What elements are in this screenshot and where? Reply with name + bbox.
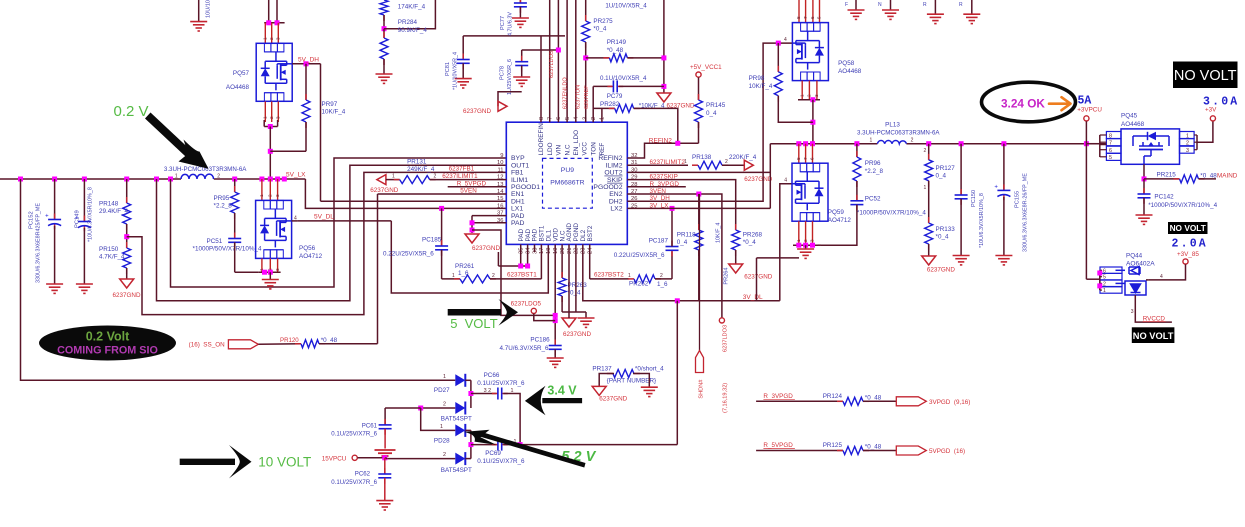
junction (810, 141, 815, 146)
ground (376, 501, 393, 510)
junction (959, 141, 964, 146)
wire PU9 top pin (557, 0, 559, 122)
svg-text:N: N (878, 2, 882, 8)
svg-text:6237GND: 6237GND (370, 187, 398, 194)
wire (442, 278, 460, 280)
svg-text:PC61: PC61 (362, 423, 378, 430)
svg-text:+3V_85: +3V_85 (1177, 251, 1199, 258)
wire R_3VPGD (756, 400, 843, 402)
svg-text:4.7K/F_4: 4.7K/F_4 (99, 254, 125, 261)
svg-text:PL13: PL13 (885, 122, 900, 129)
wire (1100, 276, 1102, 278)
ground (953, 256, 970, 265)
wire (1100, 282, 1102, 284)
svg-text:6237REF: 6237REF (584, 85, 590, 109)
pin stubs PQ57 bottom (264, 101, 266, 122)
capacitor PC149 plates (83, 216, 85, 222)
svg-text:+3VPCU: +3VPCU (1077, 107, 1102, 114)
annotation arrow to 15VPCU (180, 459, 235, 465)
junction MAIND (1142, 176, 1147, 181)
svg-text:34: 34 (525, 247, 531, 254)
wire (470, 430, 472, 458)
wire (465, 429, 471, 431)
junction (675, 141, 680, 146)
svg-text:F: F (845, 2, 848, 8)
wire (698, 194, 700, 230)
wire (1085, 121, 1087, 144)
capacitor PC79 plates (607, 85, 613, 87)
junction PQ58 gate (776, 41, 781, 46)
svg-text:6: 6 (556, 117, 562, 120)
terminal 6237LDO5 (531, 308, 536, 313)
wire (522, 49, 559, 51)
junction (18, 177, 23, 182)
svg-text:0.1U/25V/X7R_6: 0.1U/25V/X7R_6 (477, 380, 525, 387)
svg-text:+: + (45, 214, 49, 220)
capacitor PC69 plates (492, 444, 498, 446)
terminal +5V_VCC1 (696, 72, 701, 77)
wire (462, 63, 464, 78)
svg-text:1: 1 (440, 424, 443, 430)
svg-text:5A: 5A (1078, 95, 1092, 108)
wire (798, 99, 820, 101)
svg-text:0_4: 0_4 (936, 173, 947, 180)
junction (525, 264, 530, 269)
annotation arrow to PD28 (478, 431, 586, 467)
svg-text:6237LDO5: 6237LDO5 (549, 51, 555, 78)
svg-text:EN1: EN1 (511, 191, 524, 198)
transistor PQ45 pin boxes left (1106, 132, 1121, 161)
wire (441, 250, 443, 279)
svg-text:PR95: PR95 (214, 195, 230, 202)
connector 5VPGD (896, 446, 926, 455)
wire (83, 179, 85, 222)
svg-text:R_5VPGD: R_5VPGD (763, 442, 793, 449)
svg-text:2: 2 (269, 37, 274, 40)
wire PQ59 gate (780, 184, 792, 301)
svg-text:0.2 V: 0.2 V (114, 103, 149, 120)
junction (470, 220, 475, 225)
wire (465, 458, 471, 460)
svg-text:2: 2 (725, 159, 728, 165)
wire (676, 301, 678, 445)
svg-text:2: 2 (443, 402, 446, 408)
annotation arrow to PC66 output (542, 398, 582, 403)
capacitor PC66 plates (492, 393, 498, 395)
wire (358, 457, 386, 459)
junction (268, 149, 273, 154)
wire (663, 0, 665, 93)
junction feedback divider (124, 234, 129, 239)
wire (585, 0, 587, 21)
svg-text:1: 1 (628, 273, 631, 279)
svg-text:PC149: PC149 (75, 210, 81, 228)
wire (126, 179, 128, 203)
svg-text:PGOOD1: PGOOD1 (511, 184, 540, 191)
ground (376, 74, 393, 83)
capacitor PC155 plates (1003, 184, 1005, 190)
wire (769, 144, 771, 209)
transistor PQ58 AO4468 (792, 23, 828, 81)
pin stubs PQ58 top (798, 0, 800, 23)
resistor PR95 zigzag (234, 186, 236, 192)
svg-text:0.22U/25V/X5R_6: 0.22U/25V/X5R_6 (614, 252, 665, 259)
svg-text:6237GND: 6237GND (563, 331, 591, 338)
resistor PR282 zigzag (609, 107, 615, 109)
wire 5V_DH (292, 63, 320, 65)
junction (262, 270, 267, 275)
ground (46, 284, 63, 293)
svg-text:2: 2 (492, 273, 495, 279)
svg-text:6237GND: 6237GND (744, 274, 772, 281)
ground (797, 249, 814, 258)
wire (1149, 264, 1186, 280)
svg-text:PR261: PR261 (455, 263, 475, 270)
svg-text:PQ45: PQ45 (1121, 113, 1138, 120)
wire (234, 213, 236, 239)
junction (803, 141, 808, 146)
svg-text:4.7U/6.3V/X5R_6: 4.7U/6.3V/X5R_6 (500, 345, 550, 352)
junction (268, 177, 273, 182)
wire PU9 top pin (575, 0, 577, 122)
svg-text:N.C: N.C (564, 144, 571, 155)
svg-text:7: 7 (1109, 141, 1112, 147)
wire (1143, 179, 1145, 194)
svg-text:1: 1 (1103, 288, 1106, 294)
junction (154, 177, 159, 182)
wire SS_ON riser (377, 194, 379, 344)
wire (1194, 134, 1197, 136)
wire PU9 top pin (566, 0, 568, 122)
svg-text:PD28: PD28 (434, 438, 450, 445)
svg-text:PU9: PU9 (561, 167, 574, 174)
junction (282, 177, 287, 182)
connector 3VPGD (896, 397, 926, 406)
svg-text:3: 3 (276, 116, 281, 119)
svg-text:PC51: PC51 (207, 238, 223, 245)
wire (1086, 278, 1099, 280)
ground (512, 18, 529, 27)
svg-text:PGOOD2: PGOOD2 (593, 184, 622, 191)
pin stubs PQ56 bottom (261, 258, 263, 272)
junction (553, 318, 558, 323)
svg-text:PC66: PC66 (484, 372, 500, 379)
transistor PQ56 AO4712 (256, 200, 292, 258)
wire (234, 179, 236, 192)
capacitor PC52 plates (856, 195, 858, 201)
svg-text:3.3UH-PCMC063T3R3MN-6A: 3.3UH-PCMC063T3R3MN-6A (857, 130, 940, 137)
wire (421, 408, 456, 430)
svg-text:0.1U/25V/X7R_6: 0.1U/25V/X7R_6 (331, 431, 377, 438)
ground (547, 358, 564, 367)
wire (258, 343, 301, 346)
svg-text:REF: REF (599, 143, 606, 156)
wire (818, 244, 821, 246)
svg-text:1: 1 (924, 185, 927, 191)
svg-text:220K/F_4: 220K/F_4 (729, 154, 757, 161)
wire (1197, 121, 1213, 142)
terminal +3V_85 (1183, 259, 1188, 264)
pin stubs PQ58 bottom (801, 81, 803, 100)
svg-text:PQ58: PQ58 (838, 60, 855, 67)
svg-text:10: 10 (497, 160, 503, 166)
resistor PR120 zigzag (295, 343, 301, 345)
svg-text:4: 4 (1160, 274, 1163, 280)
wire (384, 429, 386, 449)
wire (619, 85, 664, 87)
ground 6237GND triangle (562, 318, 576, 327)
wire REFIN2 (627, 143, 698, 158)
svg-text:5 VOLT: 5 VOLT (450, 316, 498, 331)
svg-text:1: 1 (259, 194, 264, 197)
svg-text:15VPCU: 15VPCU (322, 455, 347, 462)
wire PU9 top pin (549, 0, 551, 122)
capacitor PC61 plates (384, 419, 386, 425)
wire (960, 199, 962, 256)
resistor PR150 zigzag (126, 242, 128, 248)
resistor PR127 zigzag (928, 154, 930, 160)
svg-text:0_4: 0_4 (677, 239, 688, 246)
svg-text:NO VOLT: NO VOLT (1170, 223, 1206, 233)
resistor PR263 zigzag (561, 272, 563, 278)
svg-text:249K/F_4: 249K/F_4 (407, 166, 435, 173)
svg-text:8: 8 (796, 16, 801, 19)
PU9 inner dashed box (543, 158, 593, 208)
wire (54, 226, 56, 284)
svg-text:6: 6 (1103, 268, 1106, 274)
junction (1097, 283, 1102, 288)
svg-text:3 2: 3 2 (484, 388, 492, 394)
wire 5V_DH riser (320, 64, 322, 201)
terminal +3VPCU (1084, 116, 1089, 121)
wire (385, 457, 387, 460)
resistor PR125 zigzag (837, 450, 843, 452)
ground (262, 280, 279, 289)
svg-text:10U/10V: 10U/10V (206, 0, 212, 18)
wire (655, 278, 672, 280)
svg-text:2.0A: 2.0A (1172, 238, 1208, 251)
svg-text:EN2: EN2 (609, 191, 622, 198)
wire (554, 349, 556, 358)
resistor PR261 zigzag (454, 278, 460, 280)
svg-text:*10U/6.3V/X5R/10%_8: *10U/6.3V/X5R/10%_8 (979, 193, 985, 248)
svg-text:6237GND: 6237GND (744, 176, 772, 183)
wire (264, 22, 284, 24)
wire (519, 7, 521, 18)
svg-text:6237TON: 6237TON (576, 85, 582, 109)
svg-text:*0_48: *0_48 (607, 47, 624, 54)
svg-text:PC78: PC78 (500, 66, 506, 80)
wire (821, 205, 857, 246)
ground (641, 387, 658, 396)
wire (756, 258, 758, 301)
junction (518, 442, 523, 447)
wire (1143, 164, 1145, 179)
ground bars above 15VPCU node (375, 450, 396, 456)
junction (796, 141, 801, 146)
svg-text:21: 21 (567, 248, 573, 254)
wire R_3VPGD (627, 186, 686, 188)
wire (270, 150, 306, 152)
junction (168, 177, 173, 182)
svg-text:6237BST2: 6237BST2 (594, 272, 624, 279)
svg-text:1_6: 1_6 (657, 281, 668, 288)
capacitor PC185 plates (441, 240, 443, 246)
resistor PR124 zigzag (837, 400, 843, 402)
junction (796, 243, 801, 248)
svg-text:*2.2_8: *2.2_8 (865, 168, 884, 175)
wire AGND (568, 244, 570, 318)
resistor PR96 zigzag (856, 151, 858, 157)
ground 6237GND triangle (377, 175, 386, 185)
wire (465, 379, 471, 381)
svg-text:2: 2 (269, 116, 274, 119)
resistor PR118 zigzag (698, 224, 700, 230)
svg-text:1: 1 (263, 37, 268, 40)
wire (234, 242, 236, 272)
wire (83, 228, 85, 284)
svg-text:3: 3 (814, 94, 819, 97)
wire VCC (585, 42, 587, 122)
svg-text:2: 2 (924, 148, 927, 154)
wire 3VEN (627, 194, 722, 318)
wire (503, 394, 520, 445)
wire (561, 244, 563, 278)
svg-text:PC186: PC186 (530, 337, 550, 344)
svg-text:3: 3 (810, 239, 815, 242)
terminal 6237LDO3 (719, 318, 724, 323)
pin stubs PQ56 top (261, 179, 263, 200)
wire (387, 458, 455, 460)
svg-text:BAT54SPT: BAT54SPT (441, 467, 472, 474)
svg-text:PC79: PC79 (607, 93, 623, 100)
svg-text:1U/10V/X5R_4: 1U/10V/X5R_4 (605, 3, 647, 10)
wire 5V_LX bus (0, 178, 181, 180)
junction (266, 20, 271, 25)
svg-text:PC77: PC77 (500, 16, 506, 30)
svg-text:6237ENLDO: 6237ENLDO (563, 77, 569, 109)
svg-text:5V_LX: 5V_LX (286, 172, 306, 179)
junction (275, 177, 280, 182)
wire (305, 64, 307, 100)
junction (810, 120, 815, 125)
diode PD27 (1) (455, 374, 465, 386)
svg-text:PC155: PC155 (1015, 191, 1021, 208)
wire (498, 92, 522, 107)
svg-text:29.4K/F_4: 29.4K/F_4 (99, 208, 129, 215)
wire DH1 (321, 200, 507, 202)
junction (470, 228, 475, 233)
wire (383, 29, 385, 38)
svg-text:6237GND: 6237GND (463, 108, 491, 115)
wire (1100, 134, 1107, 136)
svg-text:8: 8 (796, 157, 801, 160)
junction (52, 177, 57, 182)
transistor PQ44 body (1116, 267, 1147, 296)
svg-text:NO VOLT: NO VOLT (1133, 331, 1174, 341)
svg-text:3: 3 (276, 37, 281, 40)
svg-text:1: 1 (452, 273, 455, 279)
junction (583, 55, 588, 60)
wire R_5VPGD (756, 450, 843, 452)
wire (778, 96, 813, 122)
svg-text:*1000P/50V/X7R/10%_4: *1000P/50V/X7R/10%_4 (1148, 202, 1217, 209)
diode PD28 (1) (455, 424, 465, 436)
svg-text:6: 6 (810, 16, 815, 19)
annotation arrow to LDO5 (448, 309, 501, 316)
connector SHDN# (696, 351, 704, 373)
wire (470, 380, 472, 408)
annotation ellipse 3.24 OK (982, 82, 1076, 122)
ground 6237GND triangle (744, 160, 753, 170)
svg-text:+: + (994, 184, 998, 190)
wire (590, 278, 629, 280)
wire 5V_LX (269, 127, 271, 180)
svg-text:5: 5 (1109, 155, 1112, 161)
transistor PQ57 AO4468 (256, 43, 292, 101)
svg-text:8: 8 (539, 117, 545, 120)
junction PQ58 source (810, 97, 815, 102)
svg-text:4: 4 (294, 215, 297, 221)
wire (599, 374, 614, 387)
svg-text:10K/F_4: 10K/F_4 (716, 223, 722, 243)
svg-text:23: 23 (581, 248, 587, 254)
ground (1136, 215, 1153, 224)
annotation ellipse 0.2 Volt COMING FROM SIO (39, 326, 176, 361)
svg-text:10K/F_4: 10K/F_4 (322, 109, 346, 116)
junction (124, 177, 129, 182)
wire (1196, 135, 1198, 150)
svg-text:*2.2_8: *2.2_8 (214, 203, 233, 210)
svg-text:PC62: PC62 (355, 471, 371, 478)
wire (698, 250, 700, 301)
wire 3V bus (770, 143, 877, 145)
svg-text:PR127: PR127 (936, 165, 956, 172)
wire (276, 0, 278, 23)
wire (263, 120, 265, 127)
svg-text:7: 7 (803, 157, 808, 160)
svg-text:VIN: VIN (556, 144, 563, 155)
wire (534, 314, 555, 321)
wire (722, 164, 744, 166)
wire (627, 57, 664, 59)
svg-text:OUT2: OUT2 (604, 170, 622, 177)
wire (1003, 197, 1005, 256)
wire (521, 66, 523, 78)
svg-text:5: 5 (1103, 275, 1106, 281)
wire (264, 126, 277, 128)
junction (810, 243, 815, 248)
svg-text:R_3VPGD: R_3VPGD (763, 393, 793, 400)
svg-text:PQ44: PQ44 (1126, 253, 1143, 260)
svg-text:17: 17 (539, 248, 545, 254)
wire (471, 444, 497, 446)
svg-text:0.1U/25V/X7R_6: 0.1U/25V/X7R_6 (477, 458, 525, 465)
capacitor PC150 plates (960, 189, 962, 195)
transistor PQ45 body (1121, 129, 1180, 164)
svg-text:4: 4 (784, 178, 787, 184)
wire (472, 230, 555, 315)
wire (1146, 279, 1149, 281)
svg-text:AO4712: AO4712 (299, 253, 323, 260)
wire (634, 108, 678, 143)
svg-text:PR215: PR215 (1157, 172, 1177, 179)
svg-text:BST2: BST2 (587, 225, 594, 241)
svg-text:4: 4 (784, 37, 787, 43)
svg-text:ILIM1: ILIM1 (511, 177, 528, 184)
svg-text:LDOREFIN: LDOREFIN (538, 123, 545, 156)
wire 5V_DL (297, 220, 391, 222)
